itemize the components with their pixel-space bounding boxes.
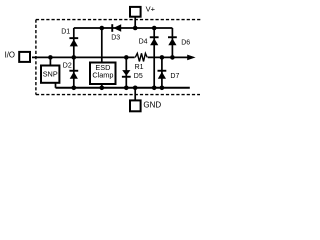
svg-text:R1: R1 xyxy=(135,64,144,71)
svg-text:Clamp: Clamp xyxy=(92,71,113,80)
svg-text:I/O: I/O xyxy=(5,50,15,59)
svg-text:D3: D3 xyxy=(111,34,120,41)
svg-text:D1: D1 xyxy=(61,29,70,36)
svg-text:D5: D5 xyxy=(134,73,143,80)
svg-text:D6: D6 xyxy=(181,39,190,46)
svg-text:SNP: SNP xyxy=(43,69,58,78)
svg-text:D4: D4 xyxy=(139,38,148,45)
svg-text:V+: V+ xyxy=(146,4,156,13)
svg-text:D7: D7 xyxy=(170,73,179,80)
svg-text:D2: D2 xyxy=(63,63,72,70)
svg-text:GND: GND xyxy=(143,100,161,109)
